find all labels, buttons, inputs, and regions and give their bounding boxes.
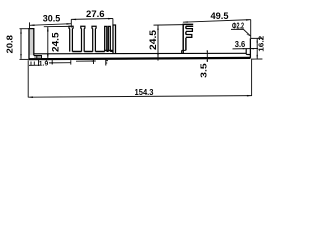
left wall interior shading xyxy=(30,29,34,55)
clip stem xyxy=(183,24,193,53)
svg-text:27.6: 27.6 xyxy=(86,9,105,20)
heatsink base top plateau xyxy=(34,52,246,55)
fins right wall xyxy=(113,25,116,54)
dim 24.5 left top extension xyxy=(44,25,70,27)
svg-text:Φ2.2: Φ2.2 xyxy=(232,22,244,31)
svg-text:1.9: 1.9 xyxy=(39,61,49,68)
arrow 20.8 top xyxy=(20,29,22,34)
svg-text:3.6: 3.6 xyxy=(235,39,246,49)
dim 27.6 line xyxy=(71,18,113,21)
small dim line b xyxy=(76,60,96,62)
arrow 49.5 left xyxy=(183,21,188,23)
dim 16.2 top extension xyxy=(251,37,262,39)
arrow 3.5 top xyxy=(207,50,208,53)
slot fillet marks xyxy=(105,49,113,51)
arrow 24.5 left top xyxy=(47,27,49,32)
arrow 24.5 right top xyxy=(157,25,159,30)
small tick x106 xyxy=(106,59,108,65)
dim 24.5 right line xyxy=(157,25,159,61)
dim 20.8 bottom extension xyxy=(20,58,30,60)
arrow 20.8 bottom xyxy=(20,54,22,59)
small tick x34.3 xyxy=(33,62,35,66)
svg-text:16.2: 16.2 xyxy=(256,36,265,52)
arrow 24.5 left bottom xyxy=(47,54,49,59)
dim 27.6 right extension xyxy=(112,19,114,25)
svg-text:30.5: 30.5 xyxy=(43,14,61,25)
dim 20.8 line xyxy=(20,29,22,59)
arrow small b xyxy=(92,60,96,61)
svg-text:154.3: 154.3 xyxy=(135,88,155,97)
small tick x38.5 xyxy=(38,60,40,66)
small tick x93.5 xyxy=(93,59,95,64)
dim 16.2 line xyxy=(256,39,258,59)
arrow 3.6 left xyxy=(243,48,246,49)
arrow 24.5 right bottom xyxy=(157,53,159,58)
dim 154.3 left extension xyxy=(27,60,29,97)
dim 30.5/27.6 shared extension xyxy=(70,19,72,27)
arrow 154.3 left xyxy=(28,96,33,98)
dim 16.2 bottom extension xyxy=(251,58,262,60)
right lip inner wall xyxy=(246,48,250,54)
svg-text:24.5: 24.5 xyxy=(148,30,158,50)
svg-text:20.8: 20.8 xyxy=(4,35,14,54)
dim 49.5 line xyxy=(183,20,251,23)
left wall foot shading xyxy=(34,56,41,59)
dim 154.3 right extension xyxy=(251,60,253,96)
small tick x31 xyxy=(30,62,32,66)
arrow 27.6 right xyxy=(108,18,113,20)
dim 3.6 line xyxy=(233,48,259,50)
small tick x52.2 xyxy=(51,60,53,65)
svg-text:3.5: 3.5 xyxy=(199,63,208,78)
left wall xyxy=(29,29,34,60)
dim 154.3 line xyxy=(28,96,252,98)
fin 2 xyxy=(81,26,85,51)
small tick x70.8 xyxy=(70,60,72,64)
arrow 30.5/27.6 mid left xyxy=(67,23,72,25)
dim 24.5 left line xyxy=(47,27,49,61)
arrow 49.5 right xyxy=(246,19,251,21)
arrow small a xyxy=(49,62,53,63)
arrow 3.6 right xyxy=(250,48,253,49)
clip foot xyxy=(182,50,186,53)
clip tooth 2 xyxy=(186,35,192,38)
dim 49.5 right extension xyxy=(250,20,252,39)
arrow 27.6 mid right xyxy=(71,19,76,21)
small dim line c xyxy=(29,64,41,66)
small dim line a xyxy=(49,62,71,64)
fin 3 xyxy=(92,26,96,51)
right lip outer wall xyxy=(249,38,251,58)
clip tooth 1 xyxy=(186,29,193,32)
arrow leader phi2.2 xyxy=(246,34,250,37)
dim 24.5 right top extension xyxy=(154,24,184,27)
leader line phi2.2 xyxy=(231,29,251,36)
dim 20.8 top extension xyxy=(20,28,30,30)
slot bottoms xyxy=(72,50,113,52)
arrow 3.5 bottom xyxy=(207,58,208,61)
arrow 154.3 right xyxy=(247,95,252,97)
heatsink base bottom xyxy=(29,58,251,59)
svg-text:24.5: 24.5 xyxy=(51,32,61,52)
fin 4 xyxy=(105,26,107,51)
arrow 30.5 left xyxy=(30,24,35,26)
fin 5 xyxy=(108,26,110,51)
left wall foot xyxy=(34,56,42,59)
dim 30.5 line xyxy=(30,24,72,26)
dim 3.5 line xyxy=(206,51,208,62)
dim 30.5 left extension xyxy=(29,22,31,28)
small tick x46.3 xyxy=(45,60,47,61)
fin 1 xyxy=(69,26,73,51)
arrow 16.2 bottom xyxy=(257,55,258,59)
svg-text:49.5: 49.5 xyxy=(211,11,230,22)
arrow 16.2 top xyxy=(257,39,258,43)
